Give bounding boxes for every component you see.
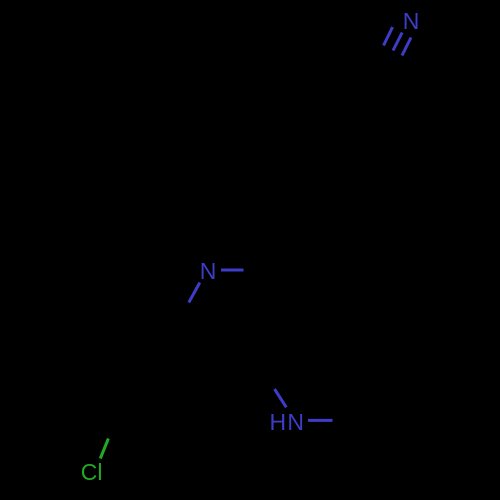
svg-text:N: N — [200, 258, 217, 284]
triple bond C#N (N-side half), side line 2 — [402, 38, 411, 56]
svg-text:H: H — [269, 409, 286, 435]
svg-text:N: N — [403, 8, 420, 34]
triple bond C#N (N-side half), side line 1 — [384, 27, 393, 46]
bond Cl-C (up-right, Cl-side half) — [100, 439, 108, 459]
bond N2-C (to the right, N-side half) — [221, 269, 244, 272]
bond N3-CH3 (to the right, N-side half) — [308, 419, 333, 422]
svg-text:N: N — [287, 409, 304, 435]
triple bond C#N (N-side half), center line — [393, 33, 402, 51]
svg-text:Cl: Cl — [81, 459, 103, 485]
bond N2-C (down-left, N-side half) — [189, 283, 200, 303]
bond N3-C (up-left, N-side half) — [275, 389, 287, 407]
